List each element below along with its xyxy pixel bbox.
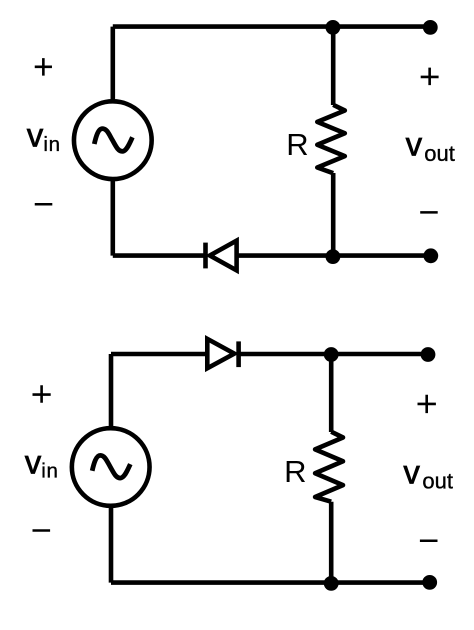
sine symbol inside source V1: [94, 129, 132, 152]
svg-text:v: v: [406, 125, 423, 162]
svg-text:v: v: [403, 453, 420, 490]
wire: left vertical from source V1 to bottom wire: [111, 178, 116, 256]
wire: resistor R1 top lead from top wire: [331, 27, 336, 105]
AC source V1 (vin): [74, 101, 152, 179]
label: + polarity left of source V1: [35, 58, 52, 76]
label: - polarity left of source V1: [35, 203, 53, 206]
node: junction dot top of R2: [324, 347, 339, 362]
svg-text:v: v: [27, 116, 44, 153]
svg-text:R: R: [286, 127, 308, 162]
svg-text:in: in: [43, 133, 60, 156]
label: - polarity at output circuit 2: [420, 540, 438, 543]
label: + polarity left of source V2: [33, 385, 51, 403]
wire: left vertical from top wire to source V1: [111, 27, 116, 104]
wire: left vertical from top wire to source V2: [109, 354, 114, 431]
label: + polarity at output circuit 2: [418, 395, 436, 413]
wire: resistor R2 top lead from top wire: [329, 354, 334, 432]
wire: bottom wire circuit 1, right segment from diode D1 to output: [237, 253, 431, 258]
resistor R1 zigzag: [317, 105, 345, 173]
diode D2 cathode bar: [236, 341, 241, 367]
node: output terminal dot bottom right circuit 2: [422, 575, 437, 590]
node: junction dot bottom of R1: [326, 249, 341, 264]
node: output terminal dot top right circuit 1: [423, 20, 438, 35]
wire: top wire circuit 2, right segment from diode D2 to output: [239, 352, 428, 357]
wire: bottom wire circuit 1, left segment to diode D1 cathode: [113, 253, 204, 258]
node: output terminal dot top right circuit 2: [421, 347, 436, 362]
wire: left vertical from source V2 to bottom wire: [109, 504, 114, 582]
svg-text:in: in: [41, 460, 58, 483]
svg-text:R: R: [284, 454, 306, 489]
node: output terminal dot bottom right circuit 1: [423, 248, 438, 263]
diode D1 triangle (pointing left): [210, 241, 237, 271]
resistor R2 zigzag: [315, 432, 343, 502]
AC source V2 (vin): [72, 428, 150, 506]
svg-text:v: v: [25, 443, 42, 480]
node: junction dot bottom of R2: [324, 576, 339, 591]
diode D2 triangle (pointing right): [207, 339, 234, 368]
diode D1 cathode bar: [203, 243, 208, 269]
wire: resistor R1 bottom lead to bottom wire: [331, 173, 336, 256]
sine symbol inside source V2: [92, 455, 130, 478]
wire: bottom wire circuit 2: [111, 580, 430, 585]
wire: top wire circuit 1: [113, 24, 431, 29]
svg-text:out: out: [424, 141, 455, 166]
wire: top wire circuit 2, left segment to diode D2: [111, 352, 208, 357]
wire: resistor R2 bottom lead to bottom wire: [329, 502, 334, 583]
label: - polarity at output circuit 1: [420, 211, 438, 214]
label: - polarity left of source V2: [33, 529, 51, 532]
svg-text:out: out: [422, 468, 453, 493]
node: junction dot top of R1: [326, 20, 341, 35]
label: + polarity at output circuit 1: [421, 68, 439, 86]
